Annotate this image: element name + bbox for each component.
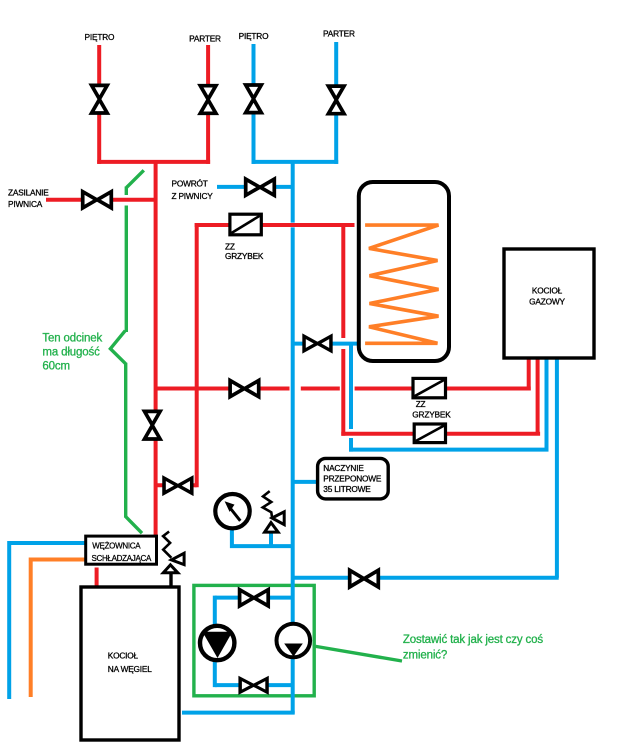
- svg-text:Ten odcinek: Ten odcinek: [42, 333, 102, 345]
- svg-text:GAZOWY: GAZOWY: [529, 297, 565, 307]
- svg-text:POWRÓT: POWRÓT: [172, 178, 208, 188]
- svg-text:ZASILANIE: ZASILANIE: [8, 188, 49, 198]
- svg-text:KOCIOŁ: KOCIOŁ: [108, 651, 139, 661]
- svg-text:GRZYBEK: GRZYBEK: [225, 251, 264, 261]
- svg-text:WĘŻOWNICA: WĘŻOWNICA: [92, 542, 141, 551]
- svg-text:GRZYBEK: GRZYBEK: [412, 410, 451, 420]
- svg-text:NACZYNIE: NACZYNIE: [323, 463, 364, 473]
- svg-text:PARTER: PARTER: [323, 29, 355, 39]
- svg-text:ZZ: ZZ: [416, 399, 426, 409]
- svg-text:Z PIWNICY: Z PIWNICY: [172, 191, 214, 201]
- svg-text:PIĘTRO: PIĘTRO: [85, 32, 115, 42]
- svg-text:ma długość: ma długość: [42, 347, 100, 359]
- svg-text:35 LITROWE: 35 LITROWE: [323, 484, 371, 494]
- svg-text:zmienić?: zmienić?: [403, 650, 447, 662]
- svg-text:KOCIOŁ: KOCIOŁ: [532, 286, 563, 296]
- svg-text:60cm: 60cm: [42, 361, 70, 373]
- svg-text:PRZEPONOWE: PRZEPONOWE: [323, 473, 382, 483]
- svg-text:SCHŁADZAJĄCA: SCHŁADZAJĄCA: [92, 554, 152, 563]
- svg-text:PIĘTRO: PIĘTRO: [239, 31, 269, 41]
- svg-text:ZZ: ZZ: [225, 241, 235, 251]
- svg-text:PIWNICA: PIWNICA: [8, 199, 43, 209]
- svg-text:PARTER: PARTER: [189, 33, 221, 43]
- svg-text:Zostawić tak jak jest czy coś: Zostawić tak jak jest czy coś: [403, 634, 543, 646]
- svg-text:NA WĘGIEL: NA WĘGIEL: [108, 664, 152, 674]
